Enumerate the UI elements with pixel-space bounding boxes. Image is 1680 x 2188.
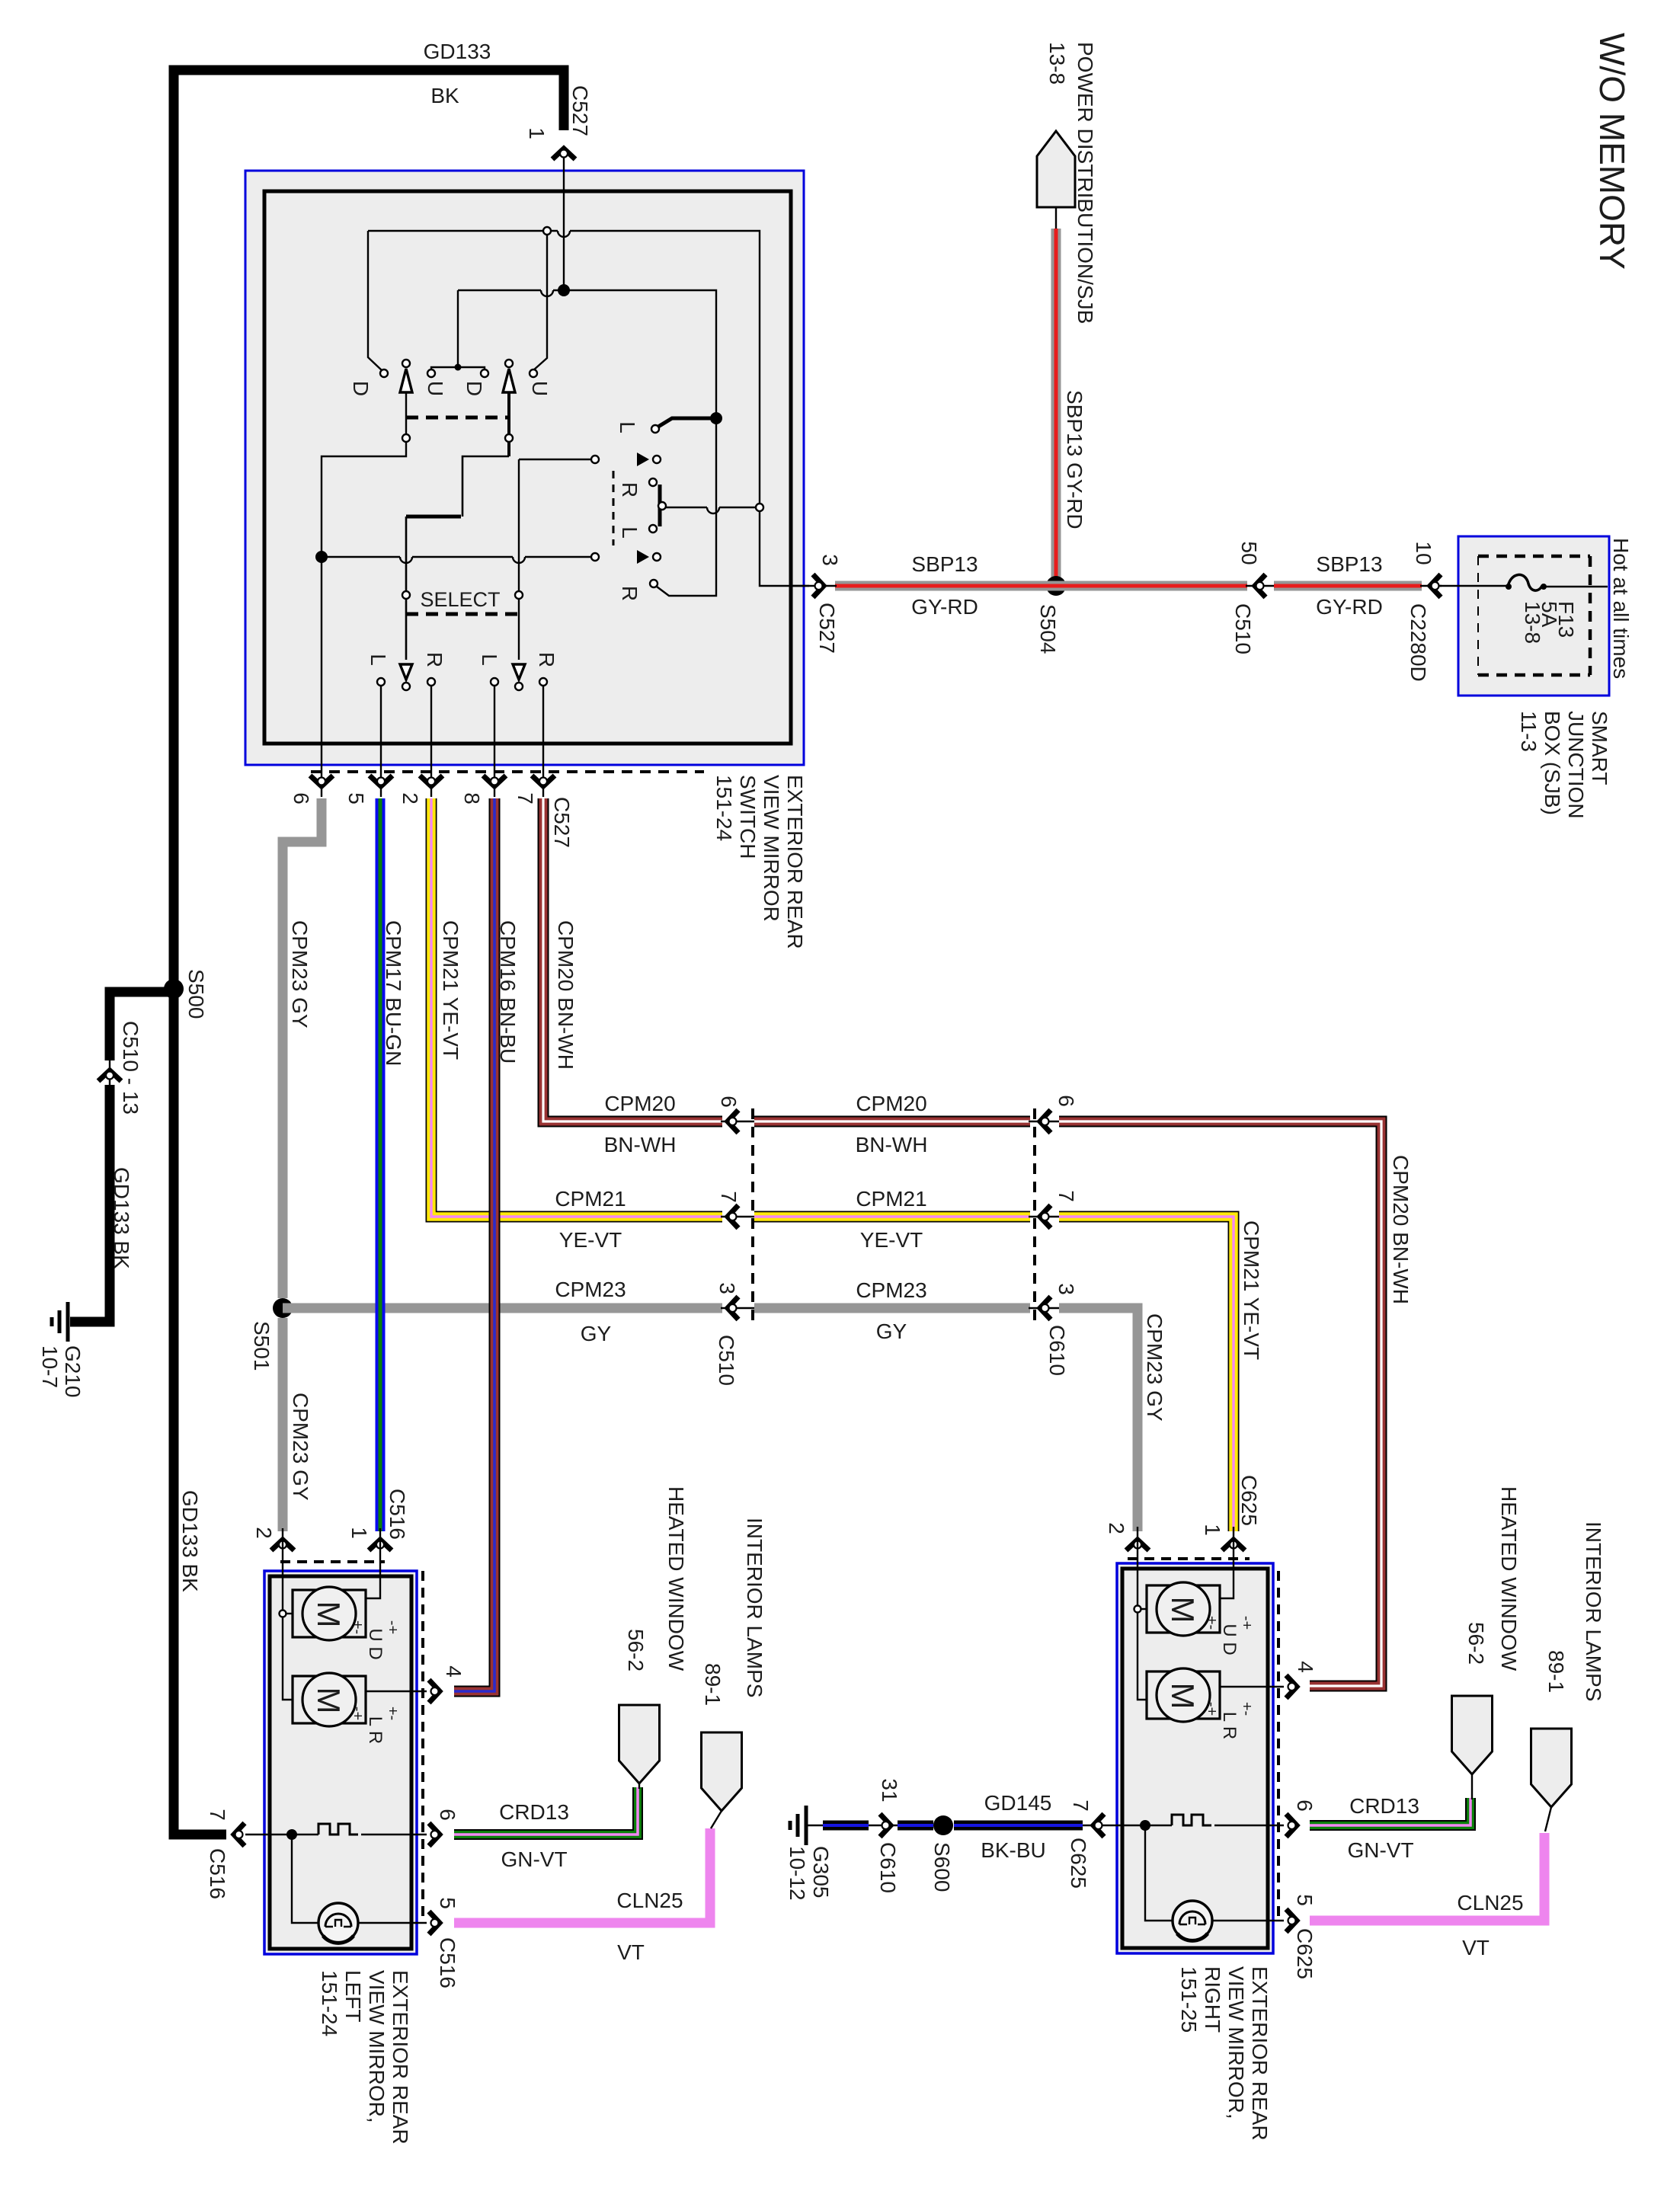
connector C527 pin1 arrow: [552, 149, 575, 159]
svg-text:INTERIOR LAMPS: INTERIOR LAMPS: [743, 1518, 766, 1697]
pole stem switch1: [322, 393, 406, 744]
contact R (select sw1): [427, 678, 435, 686]
svg-text:3: 3: [1054, 1283, 1078, 1295]
wire CLN25 VT (right): [1310, 1833, 1544, 1921]
wire CPM16 BN-BU switch pin8 to left mirror pin4: [454, 798, 494, 1691]
select bottom circle 2: [515, 683, 523, 690]
wire CPM23 GY S501 to left mirror pin2: [278, 1318, 288, 1531]
svg-text:BK: BK: [430, 84, 459, 107]
svg-text:GN-VT: GN-VT: [1347, 1838, 1413, 1862]
wire left motor2 to pin4: [366, 1691, 427, 1692]
wire left pin2 to motors: [283, 1571, 293, 1700]
connector arrow pin3: [813, 574, 824, 597]
svg-text:7: 7: [717, 1191, 741, 1203]
wire GD133 branch to C510-13: [110, 992, 174, 1060]
connector arrow SBP13 at C510 (50): [1255, 574, 1266, 597]
svg-text:C516: C516: [436, 1937, 459, 1988]
wire CPM23 GY switch pin6 to S501: [283, 798, 322, 1298]
SJB fuse dashed box top edge: [1478, 555, 1590, 558]
connector arrow CPM21 at C510: [728, 1205, 738, 1228]
svg-text:CPM21: CPM21: [555, 1187, 626, 1211]
svg-text:G305: G305: [809, 1846, 833, 1899]
connector arrow pin6: [310, 776, 333, 786]
junction L arm on vertical: [710, 412, 722, 424]
wire switch pin3 exit: [791, 585, 837, 587]
svg-text:CPM20: CPM20: [604, 1092, 675, 1115]
wire into left mirror pin7: [245, 1834, 264, 1835]
svg-text:D: D: [349, 381, 373, 396]
heater element (left): [318, 1824, 358, 1835]
wire CPM20 BN-WH to right mirror pin4: [1059, 1121, 1381, 1686]
svg-text:R: R: [535, 652, 558, 667]
svg-text:SBP13: SBP13: [1316, 552, 1382, 576]
R-L throw column circles: [649, 478, 657, 486]
select bottom triangle 1: [400, 664, 412, 680]
svg-text:151-25: 151-25: [1177, 1966, 1201, 2033]
wire hop tap over x940: [707, 507, 719, 513]
wire stem from power distribution: [1055, 207, 1057, 229]
svg-text:CPM23: CPM23: [555, 1278, 626, 1301]
connector arrow CPM20 at C610: [1040, 1110, 1051, 1133]
svg-text:S504: S504: [1036, 604, 1060, 654]
select stem upper (to upper pole): [518, 459, 520, 660]
wire hop row A over C527 wire: [558, 231, 570, 237]
connector arrow pin5: [370, 776, 392, 786]
wire row A left drop to D contact: [368, 231, 382, 370]
svg-text:C510: C510: [1231, 603, 1255, 654]
svg-text:10: 10: [1412, 541, 1435, 565]
svg-text:D: D: [462, 381, 486, 396]
wire bridge CPM23 C610: [1029, 1307, 1061, 1309]
wire left lamp branch: [292, 1835, 318, 1923]
pole triangle switch1: [400, 369, 412, 392]
contact D (switch2): [481, 369, 488, 377]
svg-text:M: M: [1165, 1683, 1201, 1710]
svg-text:EXTERIOR REAR: EXTERIOR REAR: [783, 775, 807, 949]
connector arrow left pin5: [429, 1911, 440, 1934]
svg-text:BK-BU: BK-BU: [981, 1838, 1046, 1862]
select mech dashed vertical: [613, 471, 615, 545]
svg-text:89-1: 89-1: [701, 1663, 725, 1706]
connector arrow right pin4: [1286, 1675, 1297, 1698]
SJB fuse dashed box bottom edge: [1478, 673, 1590, 677]
SJB fuse dashed box right edge: [1589, 556, 1592, 675]
svg-text:1: 1: [347, 1527, 371, 1539]
wire GD145 BK-BU seg1: [823, 1821, 869, 1831]
motor M left/right (right): [1147, 1671, 1220, 1719]
motor M left/right (left): [293, 1676, 366, 1723]
exterior rear view mirror right box: [1117, 1563, 1273, 1953]
wire stub to 31 arrow: [869, 1825, 899, 1826]
switch box inner black border: [264, 191, 791, 744]
wire right pin7 stub: [1081, 1825, 1117, 1826]
pentagon INTERIOR LAMPS (right): [1531, 1729, 1572, 1807]
svg-text:+-: +-: [1238, 1702, 1255, 1716]
select bottom triangle 2: [513, 664, 525, 680]
wire stem pentagon to CLN25 (right): [1545, 1807, 1551, 1831]
wire SBP13 GY-RD vertical: [1051, 229, 1061, 579]
wire C527 pin1 into switch box: [563, 157, 565, 290]
svg-text:151-24: 151-24: [712, 775, 736, 841]
svg-text:CPM21: CPM21: [856, 1187, 926, 1211]
wire bridge CPM20 C610: [1029, 1121, 1061, 1122]
svg-text:C516: C516: [206, 1848, 229, 1899]
svg-text:C625: C625: [1293, 1928, 1317, 1979]
motor M up/down (left): [293, 1590, 366, 1637]
svg-text:HEATED WINDOW: HEATED WINDOW: [1497, 1486, 1521, 1671]
svg-text:13-8: 13-8: [1045, 42, 1069, 85]
svg-text:10-7: 10-7: [38, 1345, 62, 1388]
select pole triangle lower: [637, 550, 649, 564]
junction S501: [273, 1298, 293, 1318]
select pole triangle upper: [637, 453, 649, 466]
svg-text:50: 50: [1237, 541, 1261, 565]
wire hop row B over U2 drop: [541, 290, 553, 296]
smart junction box SJB (blue box): [1458, 536, 1609, 696]
svg-text:C510: C510: [715, 1335, 738, 1386]
svg-text:2: 2: [252, 1527, 276, 1539]
connector arrow left pin2: [271, 1540, 294, 1550]
select stem circle 1: [402, 591, 410, 599]
wire CPM23 GY C510 to C610: [754, 1304, 1030, 1313]
svg-text:VT: VT: [1462, 1936, 1490, 1959]
connector arrow pin7: [532, 776, 555, 786]
terminal lower select feed: [591, 553, 599, 561]
svg-text:13-8: 13-8: [1521, 601, 1544, 644]
R contact lower select: [650, 580, 658, 587]
connector C527 dashed line (bottom): [311, 770, 704, 773]
svg-text:CPM23 GY: CPM23 GY: [1143, 1313, 1166, 1422]
svg-text:CRD13: CRD13: [1349, 1794, 1419, 1818]
svg-text:GD145: GD145: [984, 1791, 1052, 1815]
svg-text:S500: S500: [184, 969, 208, 1019]
wire bridge CPM21 C510: [721, 1216, 756, 1217]
svg-text:CPM21 YE-VT: CPM21 YE-VT: [1240, 1220, 1263, 1360]
connector arrow 31 C610: [880, 1814, 891, 1837]
junction S504: [1046, 576, 1066, 596]
pentagon HEATED WINDOW (right): [1452, 1696, 1493, 1774]
pole stem circle switch1: [402, 434, 410, 442]
select pole circle lower: [653, 553, 661, 561]
contact D (switch1): [380, 369, 388, 377]
svg-text:CRD13: CRD13: [499, 1800, 569, 1824]
wire CPM21 YE-VT switch pin2 down and right to C510: [431, 798, 722, 1217]
svg-text:SELECT: SELECT: [420, 588, 500, 611]
svg-text:4: 4: [1294, 1661, 1317, 1673]
wire bridge CPM20 C510: [721, 1121, 756, 1122]
svg-text:C625: C625: [1237, 1475, 1261, 1526]
svg-text:POWER DISTRIBUTION/SJB: POWER DISTRIBUTION/SJB: [1074, 42, 1097, 324]
select bottom circle 1: [402, 683, 410, 690]
wire row A (inside switch): [368, 230, 558, 232]
svg-text:W/O MEMORY: W/O MEMORY: [1592, 33, 1632, 270]
wire bridge SBP13 C510: [1246, 585, 1275, 587]
wire GD145 BK-BU seg3: [954, 1821, 1083, 1831]
pole circle switch2: [505, 360, 513, 367]
svg-text:VT: VT: [617, 1940, 645, 1964]
R-L throw bar: [658, 485, 662, 526]
svg-text:S600: S600: [930, 1842, 954, 1892]
svg-text:7: 7: [514, 792, 537, 805]
wire right heater line: [1117, 1825, 1172, 1826]
svg-text:C527: C527: [550, 797, 574, 848]
wire lower select feed: [322, 556, 400, 558]
L contact upper select: [651, 425, 659, 433]
wire SBP13 GY-RD switch pin3 to S504: [835, 581, 1247, 591]
svg-text:L: L: [478, 654, 501, 666]
wire from fuse to Hot side: [1544, 586, 1608, 587]
exterior rear view mirror left box: [264, 1571, 417, 1954]
svg-text:GD133 BK: GD133 BK: [178, 1490, 202, 1592]
wire GD145 BK-BU seg2: [898, 1821, 933, 1831]
svg-text:+-: +-: [384, 1707, 401, 1720]
terminal U2 top: [543, 227, 551, 235]
select pole circle upper: [653, 456, 661, 463]
pentagon HEATED WINDOW (left): [619, 1705, 660, 1783]
exterior rear view mirror switch box (blue outer): [245, 171, 804, 765]
wire contact L1 to pin5: [380, 686, 382, 797]
svg-text:2: 2: [398, 792, 422, 805]
wire U1-D2 bracket: [431, 367, 485, 373]
pentagon INTERIOR LAMPS (left): [702, 1732, 742, 1811]
wire hop feed over stem2: [513, 557, 525, 563]
heater element (right): [1172, 1815, 1211, 1825]
svg-text:GY-RD: GY-RD: [911, 595, 978, 619]
wire right pin1 stub: [1233, 1527, 1234, 1571]
svg-text:CPM23 GY: CPM23 GY: [288, 920, 312, 1028]
junction S600: [933, 1815, 953, 1835]
svg-text:-+: -+: [384, 1620, 401, 1634]
svg-text:1: 1: [1201, 1524, 1224, 1536]
wire pin6 below box: [321, 744, 322, 797]
connector arrow CPM23 at C610: [1040, 1297, 1051, 1320]
svg-text:CPM21 YE-VT: CPM21 YE-VT: [439, 920, 462, 1060]
svg-text:CPM16 BN-BU: CPM16 BN-BU: [496, 920, 520, 1064]
wire CPM20 BN-WH C510 to C610: [754, 1116, 1030, 1128]
wire left lamp to pin5: [358, 1922, 427, 1924]
svg-text:EXTERIOR REAR: EXTERIOR REAR: [389, 1970, 412, 2145]
wire CPM17 BU-GN switch pin5 to left mirror pin1: [376, 798, 386, 1531]
connector arrow left pin4: [429, 1680, 440, 1703]
connector arrow left pin1: [369, 1540, 392, 1550]
wire GD133 BK top+left main run: [174, 70, 564, 1835]
svg-text:R: R: [618, 482, 642, 497]
svg-text:56-2: 56-2: [1464, 1622, 1488, 1665]
contact R (select sw2): [539, 678, 547, 686]
right mirror box inner black border: [1122, 1569, 1268, 1948]
svg-text:L R: L R: [365, 1716, 386, 1744]
svg-text:S501: S501: [250, 1321, 274, 1371]
svg-text:6: 6: [436, 1809, 459, 1821]
svg-text:2: 2: [1105, 1522, 1128, 1534]
junction right heater: [1140, 1820, 1150, 1831]
svg-text:+-: +-: [1203, 1616, 1220, 1630]
svg-text:6: 6: [1293, 1799, 1317, 1812]
junction circle right motors: [1134, 1606, 1141, 1613]
svg-text:4: 4: [442, 1665, 466, 1678]
svg-text:6: 6: [717, 1096, 741, 1108]
wire bridge CPM21 C610: [1029, 1216, 1061, 1217]
wire stem pentagon to CLN25 (left): [711, 1811, 722, 1828]
svg-text:BN-WH: BN-WH: [604, 1133, 677, 1156]
svg-text:SMART: SMART: [1588, 711, 1611, 785]
svg-text:GY: GY: [581, 1322, 612, 1345]
wire CPM23 GY S501 to C510: [283, 1304, 722, 1313]
svg-text:SBP13: SBP13: [911, 552, 978, 576]
svg-text:GY: GY: [876, 1320, 907, 1343]
lamp (right mirror): [1173, 1901, 1212, 1940]
svg-text:31: 31: [878, 1778, 901, 1802]
svg-text:7: 7: [1054, 1190, 1078, 1202]
power distribution pentagon: [1037, 131, 1075, 207]
svg-text:C610: C610: [1045, 1325, 1069, 1376]
R-L center tap: [658, 502, 666, 510]
svg-text:7: 7: [1069, 1799, 1093, 1812]
wire CPM21 YE-VT to right mirror pin1: [1059, 1217, 1234, 1531]
SJB fuse dashed box left edge (thin): [1477, 556, 1479, 675]
svg-text:11-3: 11-3: [1517, 711, 1541, 752]
wire G305 stub: [806, 1825, 823, 1826]
svg-text:VIEW MIRROR,: VIEW MIRROR,: [365, 1970, 389, 2123]
svg-text:CPM23: CPM23: [856, 1278, 926, 1302]
wire bridge SBP13 C2280D: [1420, 585, 1442, 587]
svg-text:56-2: 56-2: [624, 1629, 648, 1671]
fuse F13 5A element: [1508, 574, 1542, 590]
connector arrow right pin5: [1286, 1909, 1297, 1932]
svg-text:8: 8: [460, 792, 484, 805]
wire L arm (thick): [658, 418, 713, 427]
connector arrow pin8: [483, 776, 506, 786]
svg-text:U: U: [528, 381, 552, 396]
svg-text:-+: -+: [349, 1707, 366, 1720]
connector C625 dashed (right mirror side): [1277, 1571, 1280, 1920]
motor M up/down (right): [1147, 1585, 1220, 1633]
svg-text:C625: C625: [1067, 1838, 1090, 1889]
wire stem pentagon to CRD13 (right): [1471, 1774, 1473, 1799]
contact U (switch2): [530, 369, 537, 377]
pole stem switch2 (zigzag to select): [507, 392, 510, 456]
wire left pin1 stub: [379, 1528, 381, 1571]
svg-text:CPM20 BN-WH: CPM20 BN-WH: [554, 920, 578, 1070]
connector C610 dashed line: [1033, 1108, 1036, 1326]
wire right pin1 to motor1: [1220, 1571, 1234, 1598]
connector arrow right pin1: [1222, 1540, 1245, 1550]
ground G210: [66, 1302, 70, 1342]
connector arrow pin2: [420, 776, 443, 786]
svg-text:CPM20: CPM20: [856, 1092, 926, 1115]
svg-text:GN-VT: GN-VT: [501, 1847, 567, 1871]
svg-text:GY-RD: GY-RD: [1316, 595, 1383, 619]
svg-text:BOX (SJB): BOX (SJB): [1541, 711, 1564, 815]
wire CLN25 VT (left): [454, 1828, 710, 1923]
junction left heater: [286, 1829, 297, 1840]
svg-text:CLN25: CLN25: [1457, 1891, 1523, 1914]
wire right motor2 to pin4: [1220, 1686, 1284, 1687]
connector arrow CPM21 at C610: [1040, 1205, 1051, 1228]
svg-text:89-1: 89-1: [1544, 1650, 1568, 1693]
wire left pin2 stub: [282, 1528, 283, 1571]
connector C510 dashed line: [751, 1108, 754, 1326]
lamp (left mirror): [318, 1903, 358, 1943]
connector arrow SBP13 at C2280D (10): [1430, 574, 1441, 597]
connector C625 dashed (right mirror top): [1128, 1557, 1250, 1560]
svg-text:L: L: [618, 526, 642, 539]
wire right lamp branch: [1145, 1825, 1173, 1921]
svg-text:U D: U D: [365, 1628, 386, 1659]
svg-text:3: 3: [715, 1282, 739, 1294]
svg-text:L: L: [616, 421, 639, 433]
svg-text:5: 5: [436, 1897, 459, 1909]
svg-text:L R: L R: [1219, 1712, 1240, 1739]
contact U (switch1): [427, 369, 435, 377]
svg-text:-+: -+: [1238, 1616, 1255, 1630]
pole triangle switch2: [503, 369, 515, 392]
connector C516 dashed (left mirror top): [280, 1560, 385, 1563]
connector arrow left pin6: [429, 1823, 440, 1846]
wire bridge C510-13: [109, 1059, 110, 1086]
mech link dashed U/D switches: [406, 416, 509, 420]
svg-text:CPM20 BN-WH: CPM20 BN-WH: [1389, 1155, 1413, 1304]
terminal upper select feed: [591, 456, 599, 463]
svg-text:CPM17 BU-GN: CPM17 BU-GN: [382, 920, 405, 1066]
svg-text:6: 6: [1054, 1095, 1078, 1107]
svg-text:YE-VT: YE-VT: [559, 1228, 622, 1252]
svg-text:YE-VT: YE-VT: [860, 1228, 923, 1252]
connector C510-13 arrow: [98, 1070, 121, 1081]
wire left heater line: [264, 1834, 318, 1835]
svg-text:U D: U D: [1219, 1623, 1240, 1655]
wire into SJB fuse: [1440, 585, 1508, 587]
svg-text:R: R: [423, 652, 446, 667]
select mech dashed horizontal: [406, 613, 519, 616]
svg-text:BN-WH: BN-WH: [856, 1133, 928, 1156]
connector arrow right pin2: [1126, 1540, 1149, 1550]
select stem circle 2: [515, 591, 523, 599]
contact L (select sw2): [491, 678, 498, 686]
svg-text:5: 5: [1293, 1894, 1317, 1906]
wire right pin2 to motors: [1138, 1571, 1147, 1700]
connector arrow right pin7: [1093, 1814, 1104, 1837]
junction circle left motors: [280, 1611, 286, 1617]
svg-text:LEFT: LEFT: [341, 1970, 365, 2022]
pole circle switch1: [402, 360, 410, 367]
junction S500: [164, 979, 184, 999]
svg-text:GD133 BK: GD133 BK: [110, 1167, 133, 1269]
wire bridge CPM23 C510: [721, 1307, 756, 1309]
svg-text:3: 3: [818, 554, 842, 566]
svg-text:CLN25: CLN25: [616, 1889, 683, 1912]
wire GD133 BK to ground G210: [70, 1085, 110, 1322]
wire contact R2 to pin7: [542, 686, 544, 797]
svg-text:G210: G210: [61, 1345, 85, 1398]
svg-text:JUNCTION: JUNCTION: [1564, 711, 1588, 819]
svg-text:C527: C527: [815, 603, 839, 654]
junction circle on right vertical: [756, 504, 763, 511]
svg-text:C527: C527: [568, 85, 592, 136]
svg-text:M: M: [311, 1687, 347, 1714]
wire CPM23 GY to right mirror pin2: [1059, 1308, 1138, 1531]
svg-text:C510 - 13: C510 - 13: [119, 1021, 142, 1115]
svg-text:SBP13 GY-RD: SBP13 GY-RD: [1063, 390, 1086, 529]
svg-text:U: U: [424, 381, 447, 396]
wire CRD13 GN-VT (right): [1310, 1798, 1470, 1825]
wire right lamp to pin5: [1212, 1920, 1284, 1921]
connector arrow CPM20 at C510: [728, 1110, 738, 1133]
svg-text:6: 6: [290, 792, 313, 805]
svg-text:L: L: [366, 654, 390, 666]
connector arrow right pin6: [1286, 1814, 1297, 1837]
svg-text:1: 1: [525, 127, 549, 139]
